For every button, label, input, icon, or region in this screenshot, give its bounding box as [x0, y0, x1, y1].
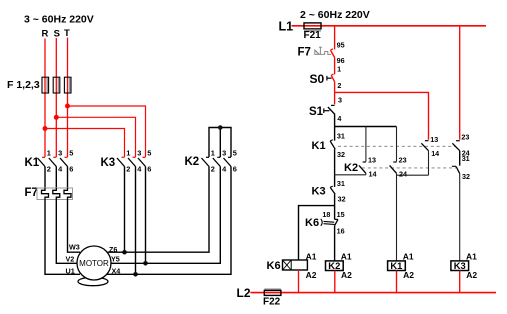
node K3 pin4 to X4 wire	[133, 272, 138, 277]
svg-text:K1: K1	[390, 260, 402, 271]
wire motor Z6	[104, 251, 125, 253]
svg-text:Z6: Z6	[109, 245, 117, 254]
svg-text:A1: A1	[466, 251, 477, 261]
aux branch K2 23-24 to coil K1	[390, 127, 429, 261]
node K2 star point	[218, 125, 223, 130]
svg-text:6: 6	[147, 165, 151, 174]
fuse F22	[264, 288, 281, 290]
svg-text:K3: K3	[101, 157, 116, 169]
svg-text:K6: K6	[267, 260, 281, 272]
timer contact K6 delay symbol	[321, 219, 335, 226]
svg-text:13: 13	[368, 155, 376, 164]
wire F7 to motor W3	[68, 200, 81, 253]
svg-text:2: 2	[126, 165, 130, 174]
aux contact K3 31-32 NC	[330, 179, 345, 204]
overload relay F7 heater 2	[53, 188, 60, 200]
contactor K3 pole 3-4	[128, 149, 142, 275]
wire K1 coil to L2 bus	[396, 271, 398, 293]
wire L2 bus	[250, 292, 496, 294]
svg-text:L1: L1	[279, 20, 294, 34]
svg-text:F7: F7	[25, 187, 38, 199]
svg-text:F 1,2,3: F 1,2,3	[7, 79, 40, 91]
svg-text:95: 95	[337, 41, 345, 50]
contactor K1 pole 1-2	[38, 149, 51, 188]
overload contact F7 NC blade	[331, 49, 335, 58]
svg-text:K1: K1	[312, 140, 326, 152]
aux contact K1 13-14	[421, 135, 439, 175]
wire K6 coil to L2 bus	[298, 270, 300, 293]
wire motor Y5	[104, 262, 146, 264]
aux branch K2 13-14	[359, 127, 377, 179]
svg-text:6: 6	[69, 165, 73, 174]
svg-text:6: 6	[233, 165, 237, 174]
svg-text:K6: K6	[305, 217, 319, 229]
wire K3 32 down to K6 contact	[334, 194, 336, 219]
svg-text:T: T	[64, 28, 70, 39]
svg-text:3: 3	[338, 96, 342, 105]
svg-text:1: 1	[126, 149, 130, 158]
svg-text:W3: W3	[69, 243, 80, 252]
svg-text:L2: L2	[237, 286, 251, 300]
svg-text:K2: K2	[185, 156, 200, 168]
wire branch T to K3 pin5	[68, 106, 146, 157]
svg-text:1: 1	[337, 64, 341, 73]
overload contact F7 thermal symbol	[315, 47, 331, 54]
svg-text:K2: K2	[344, 162, 358, 174]
fuse F21	[304, 23, 321, 29]
fuse F2	[53, 77, 60, 93]
svg-text:A1: A1	[403, 251, 414, 261]
coil K6 box	[283, 260, 308, 270]
svg-text:F21: F21	[304, 30, 322, 41]
svg-text:1: 1	[211, 149, 215, 158]
svg-text:A2: A2	[403, 270, 414, 280]
node junction S	[54, 115, 59, 120]
wire motor X4	[104, 273, 136, 275]
node junction T	[65, 104, 70, 109]
svg-text:3 ~ 60Hz 220V: 3 ~ 60Hz 220V	[24, 14, 94, 26]
svg-text:1: 1	[47, 149, 51, 158]
svg-text:5: 5	[69, 149, 73, 158]
contactor K2 pole 1-2	[125, 149, 215, 253]
motor base ellipse	[78, 277, 108, 285]
contactor K1 pole 5-6	[60, 149, 73, 188]
wire phase T vertical	[67, 38, 69, 158]
node junction R	[43, 126, 48, 131]
svg-text:F22: F22	[263, 297, 281, 308]
svg-text:S1: S1	[309, 106, 324, 118]
svg-text:16: 16	[337, 227, 345, 236]
mechanical link dashes K1 row	[338, 145, 456, 147]
wire phase R vertical	[44, 39, 46, 158]
svg-text:14: 14	[369, 170, 377, 179]
wire S0 to junction	[334, 82, 336, 105]
coil K3 box	[451, 261, 469, 271]
svg-text:Y5: Y5	[111, 255, 120, 264]
wire K2 star bridge middle	[219, 128, 221, 158]
wire L1 bus	[292, 25, 487, 27]
svg-text:U1: U1	[66, 266, 75, 275]
wire K3 coil to L2 bus	[459, 271, 461, 293]
contactor K3 pole 1-2	[117, 149, 130, 253]
svg-text:S: S	[54, 28, 60, 39]
svg-text:5: 5	[147, 149, 151, 158]
svg-text:3: 3	[222, 149, 226, 158]
svg-text:31: 31	[462, 154, 470, 163]
wire F7 to motor U1	[45, 200, 80, 275]
svg-text:23: 23	[399, 155, 407, 164]
wire F7 to S0	[334, 57, 336, 74]
aux contact K1 23-24	[452, 133, 469, 166]
svg-text:K3: K3	[312, 186, 326, 198]
coil K2 box	[326, 261, 344, 271]
svg-text:32: 32	[337, 150, 345, 159]
wire tap to K6 coil	[299, 206, 335, 260]
wire branch to K2 aux contacts	[335, 126, 397, 128]
svg-text:3: 3	[137, 149, 141, 158]
svg-text:S0: S0	[310, 72, 325, 86]
wire K2 star bridge	[209, 128, 231, 158]
svg-text:R: R	[42, 29, 49, 40]
svg-text:13: 13	[430, 135, 438, 144]
coil K1 box	[388, 261, 406, 271]
svg-text:A1: A1	[341, 251, 352, 261]
svg-text:23: 23	[461, 133, 469, 142]
contactor K2 pole 5-6	[136, 149, 237, 275]
svg-text:MOTOR: MOTOR	[79, 259, 109, 268]
svg-text:31: 31	[337, 179, 345, 188]
pushbutton S1 NO contact	[324, 105, 335, 114]
svg-text:24: 24	[399, 170, 407, 179]
contactor K2 pole 3-4	[146, 149, 228, 264]
svg-text:4: 4	[337, 114, 341, 123]
svg-text:15: 15	[337, 210, 345, 219]
wire phase S vertical	[55, 38, 57, 157]
svg-text:K3: K3	[454, 260, 466, 271]
svg-text:F7: F7	[298, 46, 311, 58]
svg-text:2 ~ 60Hz 220V: 2 ~ 60Hz 220V	[300, 9, 370, 21]
wire branch to K1 13	[335, 92, 429, 139]
wire K2 coil to L2 bus	[334, 271, 336, 293]
wire branch S to K3 pin3	[56, 117, 135, 157]
wire L1 to K1 23	[459, 26, 461, 140]
svg-text:X4: X4	[112, 267, 121, 276]
wire K6 16 to coil K2	[334, 226, 336, 261]
svg-text:5: 5	[233, 149, 237, 158]
wire main column top (L1 to F7)	[334, 26, 336, 50]
svg-text:2: 2	[47, 165, 51, 174]
svg-text:A1: A1	[306, 251, 317, 261]
svg-text:A2: A2	[306, 270, 317, 280]
aux contact K1 31-32 NC	[330, 131, 345, 159]
svg-text:V2: V2	[66, 254, 75, 263]
svg-text:K2: K2	[328, 260, 340, 271]
timer contact K6 15-18	[322, 210, 344, 236]
contactor K3 pole 5-6	[138, 149, 151, 264]
motor M1	[77, 246, 111, 280]
wire S1 to K1 31	[334, 115, 336, 141]
aux contact K2 31-32 NC	[452, 154, 470, 261]
wire K2 14 to main column	[335, 174, 366, 176]
svg-text:2: 2	[337, 81, 341, 90]
overload relay F7 heater 1	[42, 188, 49, 200]
svg-text:2: 2	[211, 165, 215, 174]
contactor K1 pole 3-4	[49, 149, 63, 188]
wire F7 to motor V2	[56, 200, 78, 264]
node K3 pin2 to Z6 wire	[122, 250, 127, 255]
overload relay F7 box	[37, 188, 73, 200]
node K3 pin6 to Y5 wire	[143, 261, 148, 266]
svg-text:32: 32	[462, 172, 470, 181]
overload relay F7 heater 3	[64, 188, 71, 200]
fuse F1	[42, 77, 49, 93]
pushbutton S0 NC contact	[327, 74, 335, 82]
svg-text:3: 3	[58, 149, 62, 158]
svg-text:32: 32	[338, 195, 346, 204]
fuse F3	[64, 77, 71, 93]
wire branch R to K3 pin1	[45, 129, 125, 158]
svg-text:18: 18	[322, 210, 330, 219]
svg-text:A2: A2	[341, 270, 352, 280]
svg-text:14: 14	[431, 149, 439, 158]
wire K1 32 down to K3 31	[334, 149, 336, 187]
mechanical link dashes K2 row	[362, 167, 456, 169]
svg-text:A2: A2	[466, 270, 477, 280]
svg-text:31: 31	[337, 131, 345, 140]
